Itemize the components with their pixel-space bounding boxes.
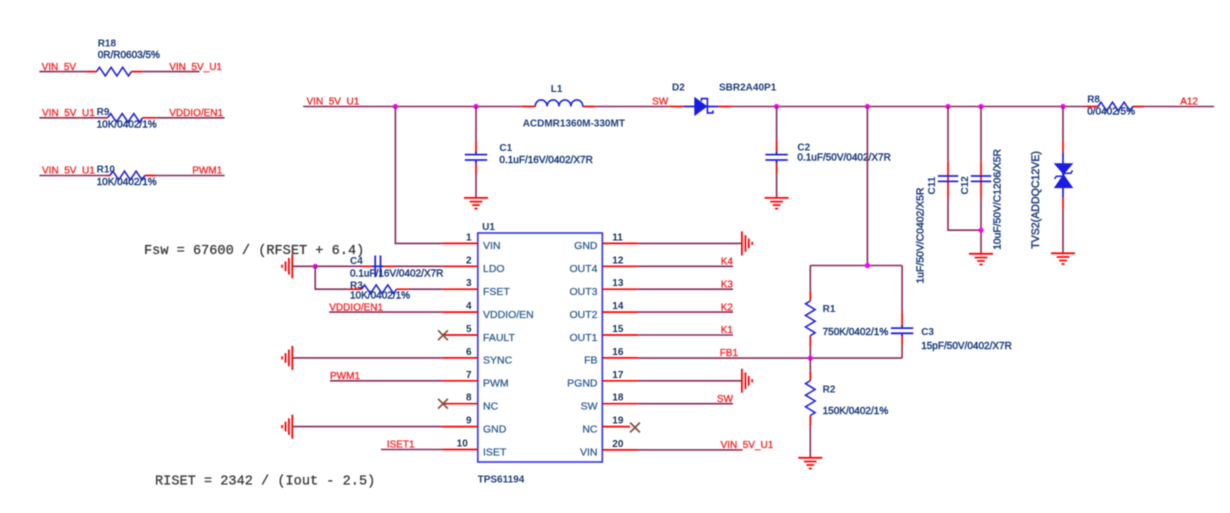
junction rail-pin1: [393, 104, 398, 109]
wire L1 to D2 (SW net): [595, 106, 670, 108]
node VIN_5V_U1 (R18 right): [169, 62, 222, 73]
wire D2 to R8: [732, 106, 1086, 108]
svg-text:GND: GND: [574, 240, 598, 252]
ground (pin11, sideways right): [742, 231, 752, 255]
svg-text:C1: C1: [499, 143, 512, 154]
svg-text:NC: NC: [483, 401, 499, 413]
wire ground to pin 9: [292, 426, 442, 428]
no-connect X (pin 8): [438, 399, 448, 409]
svg-text:FB: FB: [584, 355, 597, 367]
wire pin 15 to K1: [638, 334, 733, 336]
wire R8 to A12: [1144, 106, 1214, 108]
pin 14 OUT2 stub: [569, 301, 637, 321]
svg-text:R18: R18: [98, 38, 117, 49]
node VDDIO/EN1: [329, 302, 383, 313]
pin 20 VIN stub: [580, 439, 638, 459]
svg-text:OUT4: OUT4: [569, 263, 597, 275]
svg-text:K3: K3: [721, 279, 734, 290]
node FB1: [720, 348, 739, 359]
pin 16 FB stub: [584, 347, 638, 367]
wire VIN_5V_U1 to R10: [39, 175, 106, 177]
pin 11 GND stub: [574, 232, 638, 252]
svg-text:OUT3: OUT3: [569, 286, 597, 298]
wire pin 20 to VIN_5V_U1: [638, 449, 742, 451]
svg-text:R2: R2: [823, 385, 836, 396]
svg-text:10K/0402/1%: 10K/0402/1%: [350, 291, 410, 302]
pin 3 FSET stub: [442, 278, 510, 298]
capacitor C4: [315, 256, 443, 280]
junction rail-C1: [473, 104, 478, 109]
svg-text:R10: R10: [97, 165, 116, 176]
svg-text:0R/R0603/5%: 0R/R0603/5%: [98, 50, 160, 61]
ground (pin6 net, sideways): [282, 346, 292, 370]
wire rail to pin 1: [395, 107, 442, 244]
node K3: [721, 279, 734, 290]
junction C4-R3: [313, 264, 318, 269]
capacitor C3: [891, 266, 1012, 359]
svg-text:20: 20: [612, 439, 624, 450]
pin 7 PWM stub: [442, 370, 508, 390]
node Fsw formula: [144, 244, 364, 259]
svg-text:VDDIO/EN1: VDDIO/EN1: [329, 302, 383, 313]
svg-text:10uF/50V/C1206/X5R: 10uF/50V/C1206/X5R: [992, 149, 1003, 250]
svg-text:5: 5: [466, 324, 472, 335]
pin 6 SYNC stub: [442, 347, 512, 367]
node VIN_5V_U1 (pin20): [721, 440, 774, 451]
svg-text:17: 17: [612, 370, 624, 381]
pin 18 SW stub: [581, 393, 638, 413]
svg-text:C3: C3: [921, 327, 934, 338]
node PWM1: [192, 166, 222, 177]
svg-text:K4: K4: [721, 257, 734, 268]
svg-text:RISET = 2342 / (Iout - 2.5): RISET = 2342 / (Iout - 2.5): [155, 475, 375, 490]
capacitor C12: [960, 107, 1003, 254]
resistor R3: [315, 266, 442, 301]
svg-text:A12: A12: [1180, 97, 1198, 108]
svg-text:150K/0402/1%: 150K/0402/1%: [823, 406, 889, 417]
svg-text:ISET1: ISET1: [387, 440, 415, 451]
TVS diode TVS2: [1030, 107, 1073, 253]
junction C11-C12 bottom: [978, 228, 983, 233]
wire ground to pin 6: [292, 357, 442, 359]
svg-text:VIN_5V_U1: VIN_5V_U1: [169, 62, 222, 73]
svg-text:R8: R8: [1087, 94, 1100, 105]
pin 1 VIN stub: [442, 232, 500, 252]
node SW (pin18): [717, 394, 734, 405]
wire VIN_5V_U1 to R9: [39, 117, 104, 119]
node VIN_5V_U1 (R10 left): [42, 166, 95, 177]
ground (C12): [969, 254, 993, 265]
op-amp U1 TPS61194 box: [478, 222, 603, 485]
pin 4 VDDIO/EN stub: [442, 301, 534, 321]
no-connect X (pin 19): [630, 423, 640, 433]
wire VIN_5V to R18: [39, 71, 86, 73]
svg-text:C12: C12: [960, 176, 971, 195]
wire pin 12 to K4: [638, 265, 733, 267]
resistor R1: [806, 266, 889, 359]
svg-text:K2: K2: [721, 302, 734, 313]
capacitor C11: [915, 107, 981, 284]
pin 12 OUT4 stub: [569, 255, 637, 275]
svg-text:VIN: VIN: [483, 240, 501, 252]
capacitor C1: [465, 107, 593, 198]
svg-text:R1: R1: [823, 304, 836, 315]
resistor R2: [806, 358, 889, 457]
wire R10 to PWM1: [156, 175, 225, 177]
node VIN_5V_U1 (rail): [307, 97, 360, 108]
svg-text:11: 11: [612, 232, 623, 243]
svg-text:7: 7: [466, 370, 472, 381]
junction top of R1: [865, 263, 870, 268]
pin 19 NC stub: [582, 416, 630, 436]
inductor L1: [522, 84, 625, 130]
svg-text:VDDIO/EN: VDDIO/EN: [483, 309, 534, 321]
svg-text:750K/0402/1%: 750K/0402/1%: [823, 327, 889, 338]
ground (pin17, sideways right): [742, 369, 752, 393]
svg-text:10: 10: [457, 439, 469, 450]
wire pin 18 to SW: [638, 403, 733, 405]
svg-text:12: 12: [612, 255, 624, 266]
node K4: [721, 257, 734, 268]
svg-text:R3: R3: [350, 280, 363, 291]
svg-text:VDDIO/EN1: VDDIO/EN1: [169, 108, 223, 119]
node K1: [721, 325, 734, 336]
svg-text:4: 4: [466, 301, 472, 312]
svg-text:TVS2(ADDQC12VE): TVS2(ADDQC12VE): [1030, 151, 1042, 249]
resistor R18: [86, 38, 160, 76]
svg-text:K1: K1: [721, 325, 734, 336]
svg-text:3: 3: [466, 278, 472, 289]
pin 17 PGND stub: [567, 370, 638, 390]
svg-text:13: 13: [612, 278, 624, 289]
junction rail-C11: [945, 104, 950, 109]
svg-text:18: 18: [612, 393, 624, 404]
svg-text:19: 19: [612, 416, 624, 427]
svg-text:OUT1: OUT1: [569, 332, 597, 344]
junction rail-C2: [774, 104, 779, 109]
svg-text:D2: D2: [672, 83, 685, 94]
junction FB-R1-R2: [808, 356, 813, 361]
node A12: [1180, 97, 1198, 108]
svg-text:SW: SW: [581, 401, 598, 413]
node K2: [721, 302, 734, 313]
node ISET1: [387, 440, 415, 451]
pin 8 NC stub: [443, 393, 499, 413]
svg-text:0/0402/5%: 0/0402/5%: [1087, 107, 1135, 118]
svg-text:PWM: PWM: [483, 378, 509, 390]
svg-text:15: 15: [612, 324, 624, 335]
svg-text:SW: SW: [717, 394, 734, 405]
svg-text:6: 6: [466, 347, 472, 358]
node VIN_5V_U1 (R9 left): [42, 108, 95, 119]
svg-text:10K/0402/1%: 10K/0402/1%: [97, 119, 157, 130]
capacitor C2: [765, 107, 890, 198]
wire pin 13 to K3: [638, 288, 733, 290]
wire pin 16 FB net: [638, 357, 902, 359]
svg-text:C11: C11: [927, 176, 938, 194]
resistor R8: [1086, 94, 1145, 117]
ground (C2): [765, 198, 789, 209]
svg-text:PGND: PGND: [567, 378, 598, 390]
ground (R2): [798, 458, 822, 469]
svg-text:0.1uF/16V/0402/X7R: 0.1uF/16V/0402/X7R: [499, 155, 592, 166]
svg-text:15pF/50V/0402/X7R: 15pF/50V/0402/X7R: [921, 341, 1012, 352]
svg-text:OUT2: OUT2: [569, 309, 597, 321]
svg-text:VIN_5V_U1: VIN_5V_U1: [721, 440, 774, 451]
svg-text:FB1: FB1: [720, 348, 739, 359]
svg-text:VIN_5V: VIN_5V: [42, 62, 77, 73]
wire PWM1 to pin 7: [330, 380, 442, 382]
ground (pin2 net, sideways): [282, 254, 292, 278]
svg-text:FAULT: FAULT: [483, 332, 515, 344]
svg-text:TPS61194: TPS61194: [478, 474, 525, 485]
wire rail VIN_5V_U1 to L1: [303, 106, 522, 108]
pin 15 OUT1 stub: [569, 324, 637, 344]
node VDDIO/EN1: [169, 108, 223, 119]
svg-text:PWM1: PWM1: [330, 371, 360, 382]
svg-text:16: 16: [612, 347, 624, 358]
pin 5 FAULT stub: [443, 324, 515, 344]
svg-text:L1: L1: [551, 84, 563, 95]
pin 2 LDO stub: [442, 255, 504, 275]
svg-text:ACDMR1360M-330MT: ACDMR1360M-330MT: [523, 119, 625, 130]
svg-text:SBR2A40P1: SBR2A40P1: [719, 83, 777, 94]
svg-text:SW: SW: [652, 96, 669, 107]
svg-text:GND: GND: [483, 423, 507, 435]
svg-text:2: 2: [466, 255, 472, 266]
wire pin 14 to K2: [638, 311, 733, 313]
pin 13 OUT3 stub: [569, 278, 637, 298]
pin 10 ISET stub: [442, 439, 507, 459]
svg-text:U1: U1: [482, 222, 495, 233]
junction rail-TVS2: [1060, 104, 1065, 109]
svg-text:9: 9: [466, 416, 472, 427]
svg-text:VIN_5V_U1: VIN_5V_U1: [42, 166, 95, 177]
wire pin 17 to ground: [638, 380, 741, 382]
wire pin 11 to ground: [638, 242, 741, 244]
ground (TVS2): [1051, 253, 1075, 264]
junction rail-C12: [978, 104, 983, 109]
svg-text:FSET: FSET: [483, 286, 510, 298]
node RISET formula: [155, 475, 375, 490]
svg-text:VIN_5V_U1: VIN_5V_U1: [42, 108, 95, 119]
ground (C1): [464, 198, 488, 209]
svg-text:14: 14: [612, 301, 624, 312]
resistor R10: [97, 165, 157, 188]
wire R9 to VDDIO/EN1: [156, 117, 224, 119]
wire rail to FB network top: [866, 107, 868, 266]
wire VDDIO/EN1 to pin 4: [329, 311, 442, 313]
svg-text:ISET: ISET: [483, 446, 507, 458]
wire ISET1 to pin 10: [381, 449, 442, 451]
node SW: [652, 96, 669, 107]
svg-text:R9: R9: [97, 107, 110, 118]
wire FB network top horizontal: [810, 265, 902, 267]
svg-text:Fsw = 67600 / (RFSET + 6.4): Fsw = 67600 / (RFSET + 6.4): [144, 244, 364, 259]
svg-text:0.1uF/50V/0402/X7R: 0.1uF/50V/0402/X7R: [797, 153, 890, 164]
wire R18 to VIN_5V_U1: [143, 71, 200, 73]
svg-text:8: 8: [466, 393, 472, 404]
node PWM1 (pin7): [330, 371, 360, 382]
svg-text:LDO: LDO: [483, 263, 505, 275]
svg-text:NC: NC: [582, 423, 598, 435]
resistor R9: [97, 107, 157, 130]
no-connect X (pin 5): [438, 330, 448, 340]
junction rail-R1: [865, 104, 870, 109]
diode D2 SBR2A40P1: [670, 83, 777, 115]
svg-text:VIN: VIN: [580, 447, 598, 459]
svg-text:SYNC: SYNC: [483, 355, 513, 367]
svg-text:PWM1: PWM1: [192, 166, 222, 177]
svg-text:1uF/50V/C0402/X5R: 1uF/50V/C0402/X5R: [915, 187, 926, 283]
svg-text:0.1uF/16V/0402/X7R: 0.1uF/16V/0402/X7R: [350, 269, 443, 280]
pin 9 GND stub: [442, 416, 507, 436]
node VIN_5V: [42, 62, 77, 73]
ground (pin9 net, sideways): [282, 415, 292, 439]
svg-text:1: 1: [466, 232, 472, 243]
svg-text:10K/0402/1%: 10K/0402/1%: [97, 177, 157, 188]
wire ground to C4: [292, 265, 315, 267]
